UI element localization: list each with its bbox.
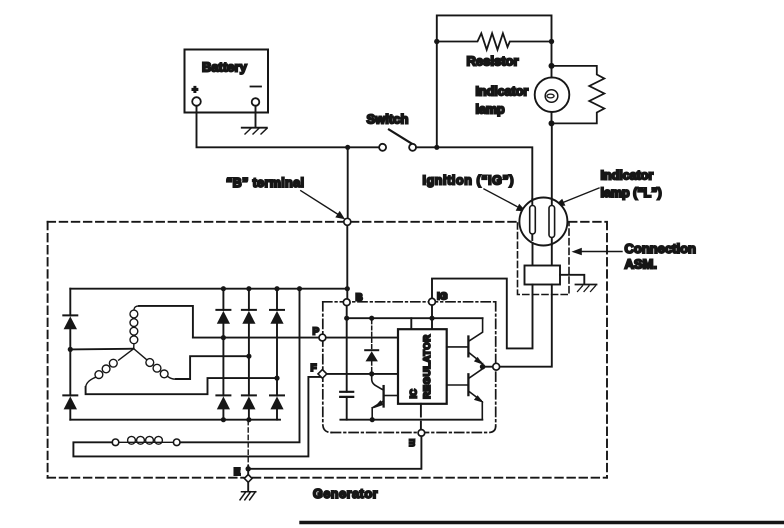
- generator dashed box top edge: [48, 221, 519, 223]
- resistor (charge warning): [437, 33, 552, 49]
- svg-text:IG: IG: [437, 292, 448, 303]
- svg-text:F: F: [311, 363, 317, 374]
- generator top bus: [70, 288, 347, 290]
- wire connection block to ground: [560, 275, 584, 284]
- battery ground symbol: [242, 128, 267, 134]
- P line wire: [193, 337, 398, 339]
- wire m stub from IC: [420, 404, 422, 430]
- supply rail wire: [347, 317, 483, 319]
- IC regulator box: [398, 329, 447, 404]
- rectifier column 1: [222, 289, 224, 420]
- connection ASM dashed outline: [518, 223, 570, 295]
- ignition leader arrow: [484, 189, 526, 211]
- generator ground symbol: [240, 492, 256, 500]
- wires connector to connection block: [533, 243, 552, 266]
- dashed frame line rectifier to E: [247, 421, 249, 467]
- field brush left: [112, 439, 119, 446]
- wire switch junction to ignition connector pin: [437, 147, 533, 203]
- wire lamp to connector pin: [551, 123, 553, 203]
- node zener on F line: [369, 371, 374, 376]
- battery positive terminal: [192, 97, 201, 106]
- wire junction down to B terminal: [347, 147, 349, 218]
- battery negative terminal: [252, 98, 260, 106]
- wire battery positive to switch bus: [197, 106, 348, 148]
- wire resistor loop (left vertical and top): [437, 15, 552, 147]
- generator dashed box bottom edge: [48, 477, 607, 479]
- diode rectifier bottom 2: [242, 395, 256, 409]
- indicator lamp L leader arrow: [554, 188, 600, 207]
- svg-text:m: m: [407, 439, 418, 447]
- stator phase 1 coil: [130, 306, 139, 349]
- svg-text:IC: IC: [409, 389, 420, 399]
- node darlington output: [480, 364, 486, 370]
- wire resistor to lamp: [551, 42, 553, 78]
- node top bus junctions: [221, 286, 350, 291]
- svg-text:B: B: [356, 293, 363, 304]
- diode rectifier top 1: [216, 310, 230, 324]
- wire switch to resistor-loop junction: [348, 146, 437, 148]
- connection ASM label: [625, 241, 697, 272]
- IC regulator assembly chain border left: [323, 302, 332, 433]
- IC regulator assembly chain border top: [323, 301, 496, 303]
- wire phase3 to rectifier column 2: [176, 356, 249, 379]
- ignition connector circle: [519, 198, 567, 246]
- diode neutral upper: [63, 315, 77, 329]
- F terminal diamond: [318, 370, 327, 379]
- connector right pin wire: [551, 199, 553, 245]
- wire B vertical inside regulator: [346, 306, 348, 392]
- wire IG into IC: [431, 305, 433, 329]
- wire phase2 to rectifier column 3: [86, 378, 277, 394]
- lamp parallel resistor branch: [552, 66, 605, 124]
- indicator lamp bulb: [535, 77, 570, 112]
- m terminal circle: [418, 430, 425, 437]
- diode rectifier bottom 3: [270, 395, 284, 409]
- svg-text:lamp: lamp: [476, 103, 506, 117]
- F line wire: [327, 373, 398, 375]
- zener diode across field: [365, 320, 378, 372]
- field winding wire right side to top bus: [180, 289, 300, 443]
- svg-text:E: E: [234, 467, 241, 478]
- connection ASM leader arrow: [572, 248, 623, 256]
- L terminal circle: [493, 363, 500, 370]
- node neutral junction: [68, 347, 73, 352]
- connector right pin slot: [549, 206, 555, 238]
- node lamp bottom junction: [549, 120, 555, 126]
- wire E junction to E terminal: [247, 466, 249, 475]
- IC regulator assembly chain border right: [495, 302, 497, 426]
- svg-text:Indicator: Indicator: [601, 169, 654, 183]
- battery box: [185, 50, 269, 113]
- B terminal circle: [344, 218, 351, 225]
- svg-text:lamp (“L”): lamp (“L”): [601, 186, 662, 200]
- B regulator terminal circle: [343, 299, 350, 306]
- IC regulator label: [409, 334, 434, 399]
- wire m terminal to E line: [248, 436, 421, 469]
- wire capacitor to ground bus: [346, 397, 348, 420]
- battery minus sign: [251, 86, 262, 88]
- svg-text:Generator: Generator: [313, 487, 378, 501]
- diode rectifier top 2: [242, 310, 256, 324]
- generator dashed box left edge: [47, 222, 49, 478]
- field brush right: [173, 439, 180, 446]
- svg-text:“B” terminal: “B” terminal: [226, 176, 304, 190]
- transistor Q3 darlington lower: [447, 369, 484, 420]
- node switch bus junction: [345, 145, 350, 150]
- svg-text:+: +: [192, 85, 198, 96]
- wire neutral to stator center: [70, 348, 133, 351]
- node resistor right: [549, 39, 554, 44]
- svg-text:P: P: [313, 327, 320, 338]
- svg-text:Ignition (“IG”): Ignition (“IG”): [423, 174, 515, 188]
- diode rectifier top 3: [270, 310, 284, 324]
- node bottom bus junctions: [221, 417, 252, 422]
- wire lamp bottom: [551, 112, 553, 123]
- IC regulator assembly chain border bottom: [332, 426, 496, 433]
- rectifier column 2: [248, 289, 250, 420]
- svg-text:Indicator: Indicator: [476, 85, 529, 99]
- rotor field coil: [119, 436, 173, 444]
- regulator ground bus: [340, 419, 482, 421]
- generator left branch wire: [69, 289, 71, 420]
- svg-text:Connection: Connection: [625, 241, 697, 256]
- connection block: [525, 266, 561, 285]
- rectifier column 3: [276, 289, 278, 420]
- wire rail stub into IC: [410, 318, 412, 329]
- svg-text:Battery: Battery: [202, 60, 248, 75]
- capacitor C: [340, 392, 353, 397]
- rectifier bottom bus: [70, 419, 280, 421]
- node phase junctions on columns: [221, 335, 280, 381]
- node rail junctions: [344, 316, 435, 321]
- IG regulator terminal circle: [429, 298, 436, 305]
- node resistor left: [434, 39, 439, 44]
- wire field left side to F terminal: [73, 377, 320, 457]
- switch: [379, 130, 416, 151]
- wire output to L terminal: [483, 366, 493, 368]
- indicator lamp L label: [601, 169, 662, 201]
- node Q1 emitter on ground bus: [370, 417, 375, 422]
- stator phase 2 coil: [86, 349, 134, 388]
- diode rectifier bottom 1: [216, 395, 230, 409]
- node lamp top junction: [549, 63, 555, 69]
- svg-text:Resistor: Resistor: [467, 54, 519, 69]
- wire E terminal to ground: [247, 483, 249, 492]
- svg-text:ASM.: ASM.: [625, 257, 658, 272]
- svg-text:Switch: Switch: [367, 112, 409, 127]
- node E junction: [246, 466, 251, 471]
- connection ASM ground symbol: [576, 285, 597, 292]
- stator phase 3 coil: [134, 349, 176, 379]
- P terminal circle: [319, 334, 326, 341]
- transistor Q1 field driver: [372, 374, 398, 420]
- indicator lamp label: [476, 85, 529, 117]
- wire phase1 to P line: [139, 306, 193, 338]
- "B" terminal leader arrow: [301, 191, 345, 220]
- svg-text:REGULATOR: REGULATOR: [422, 334, 433, 399]
- wire connection block to IG terminal (left pin): [432, 279, 533, 349]
- bottom separator rule: [301, 521, 784, 524]
- wire connection block to L terminal (right pin): [500, 285, 552, 367]
- transistor Q2 darlington upper: [447, 318, 484, 365]
- connector left pin slot: [530, 206, 536, 235]
- generator dashed box right edge: [569, 222, 607, 478]
- node switch right junction: [434, 145, 439, 150]
- wire battery negative to ground: [255, 106, 257, 127]
- wire B terminal vertical: [346, 225, 348, 299]
- E terminal diamond: [244, 475, 252, 483]
- diode neutral lower: [63, 395, 77, 409]
- connector left pin wire: [531, 199, 533, 240]
